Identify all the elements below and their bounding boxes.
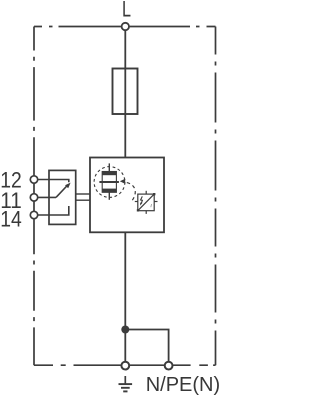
wire junction to right branch [125, 330, 168, 364]
terminal L [122, 23, 129, 30]
terminal 12 [30, 176, 37, 183]
junction node [121, 326, 129, 334]
trigger arrow head [120, 179, 125, 184]
lightning arrow inside trigger box [140, 196, 142, 205]
wire 11 [36, 196, 56, 198]
terminal N/PE(N) [165, 362, 173, 370]
enclosure border left (dash-dot) [33, 27, 35, 366]
enclosure border right (dash-dot) [215, 27, 217, 366]
trigger circuit box U1 [137, 193, 156, 212]
spark gap F1 (dashed circle enclosure) [94, 167, 125, 198]
svg-text:L: L [122, 0, 131, 21]
terminal 14 [30, 211, 37, 218]
trigger circuit box top stub [145, 191, 147, 194]
svg-text:N/PE(N): N/PE(N) [146, 374, 220, 396]
terminal PE [121, 362, 129, 370]
trigger circuit box left stub [135, 201, 138, 203]
enclosure border top (dash-dot) [34, 26, 216, 28]
remote signalling contact box [49, 170, 76, 224]
trigger circuit box right stub [154, 201, 157, 203]
spark gap electrode body [102, 172, 116, 193]
wire 12 [36, 180, 69, 183]
spark gap top stub [108, 163, 110, 171]
fuse F [113, 69, 138, 115]
ground [119, 376, 133, 391]
spark gap bottom stub [108, 192, 110, 200]
wire from arrester box to N terminal [124, 232, 126, 363]
trigger dashed arc [127, 183, 135, 202]
wire from L terminal to fuse [124, 28, 126, 69]
wire 14 [36, 206, 69, 215]
small mark lower-right of trigger box [150, 204, 153, 207]
main arrester box [90, 158, 164, 233]
switch lever (11 to 12) [56, 183, 71, 198]
wire through fuse [124, 69, 126, 158]
mechanical link (double line) [76, 194, 90, 200]
svg-text:14: 14 [0, 207, 22, 232]
trigger circuit box bottom stub [145, 211, 147, 214]
enclosure border bottom (dash-dot) [34, 364, 216, 366]
spark gap middle electrode line [99, 181, 119, 183]
terminal 11 [30, 194, 37, 201]
